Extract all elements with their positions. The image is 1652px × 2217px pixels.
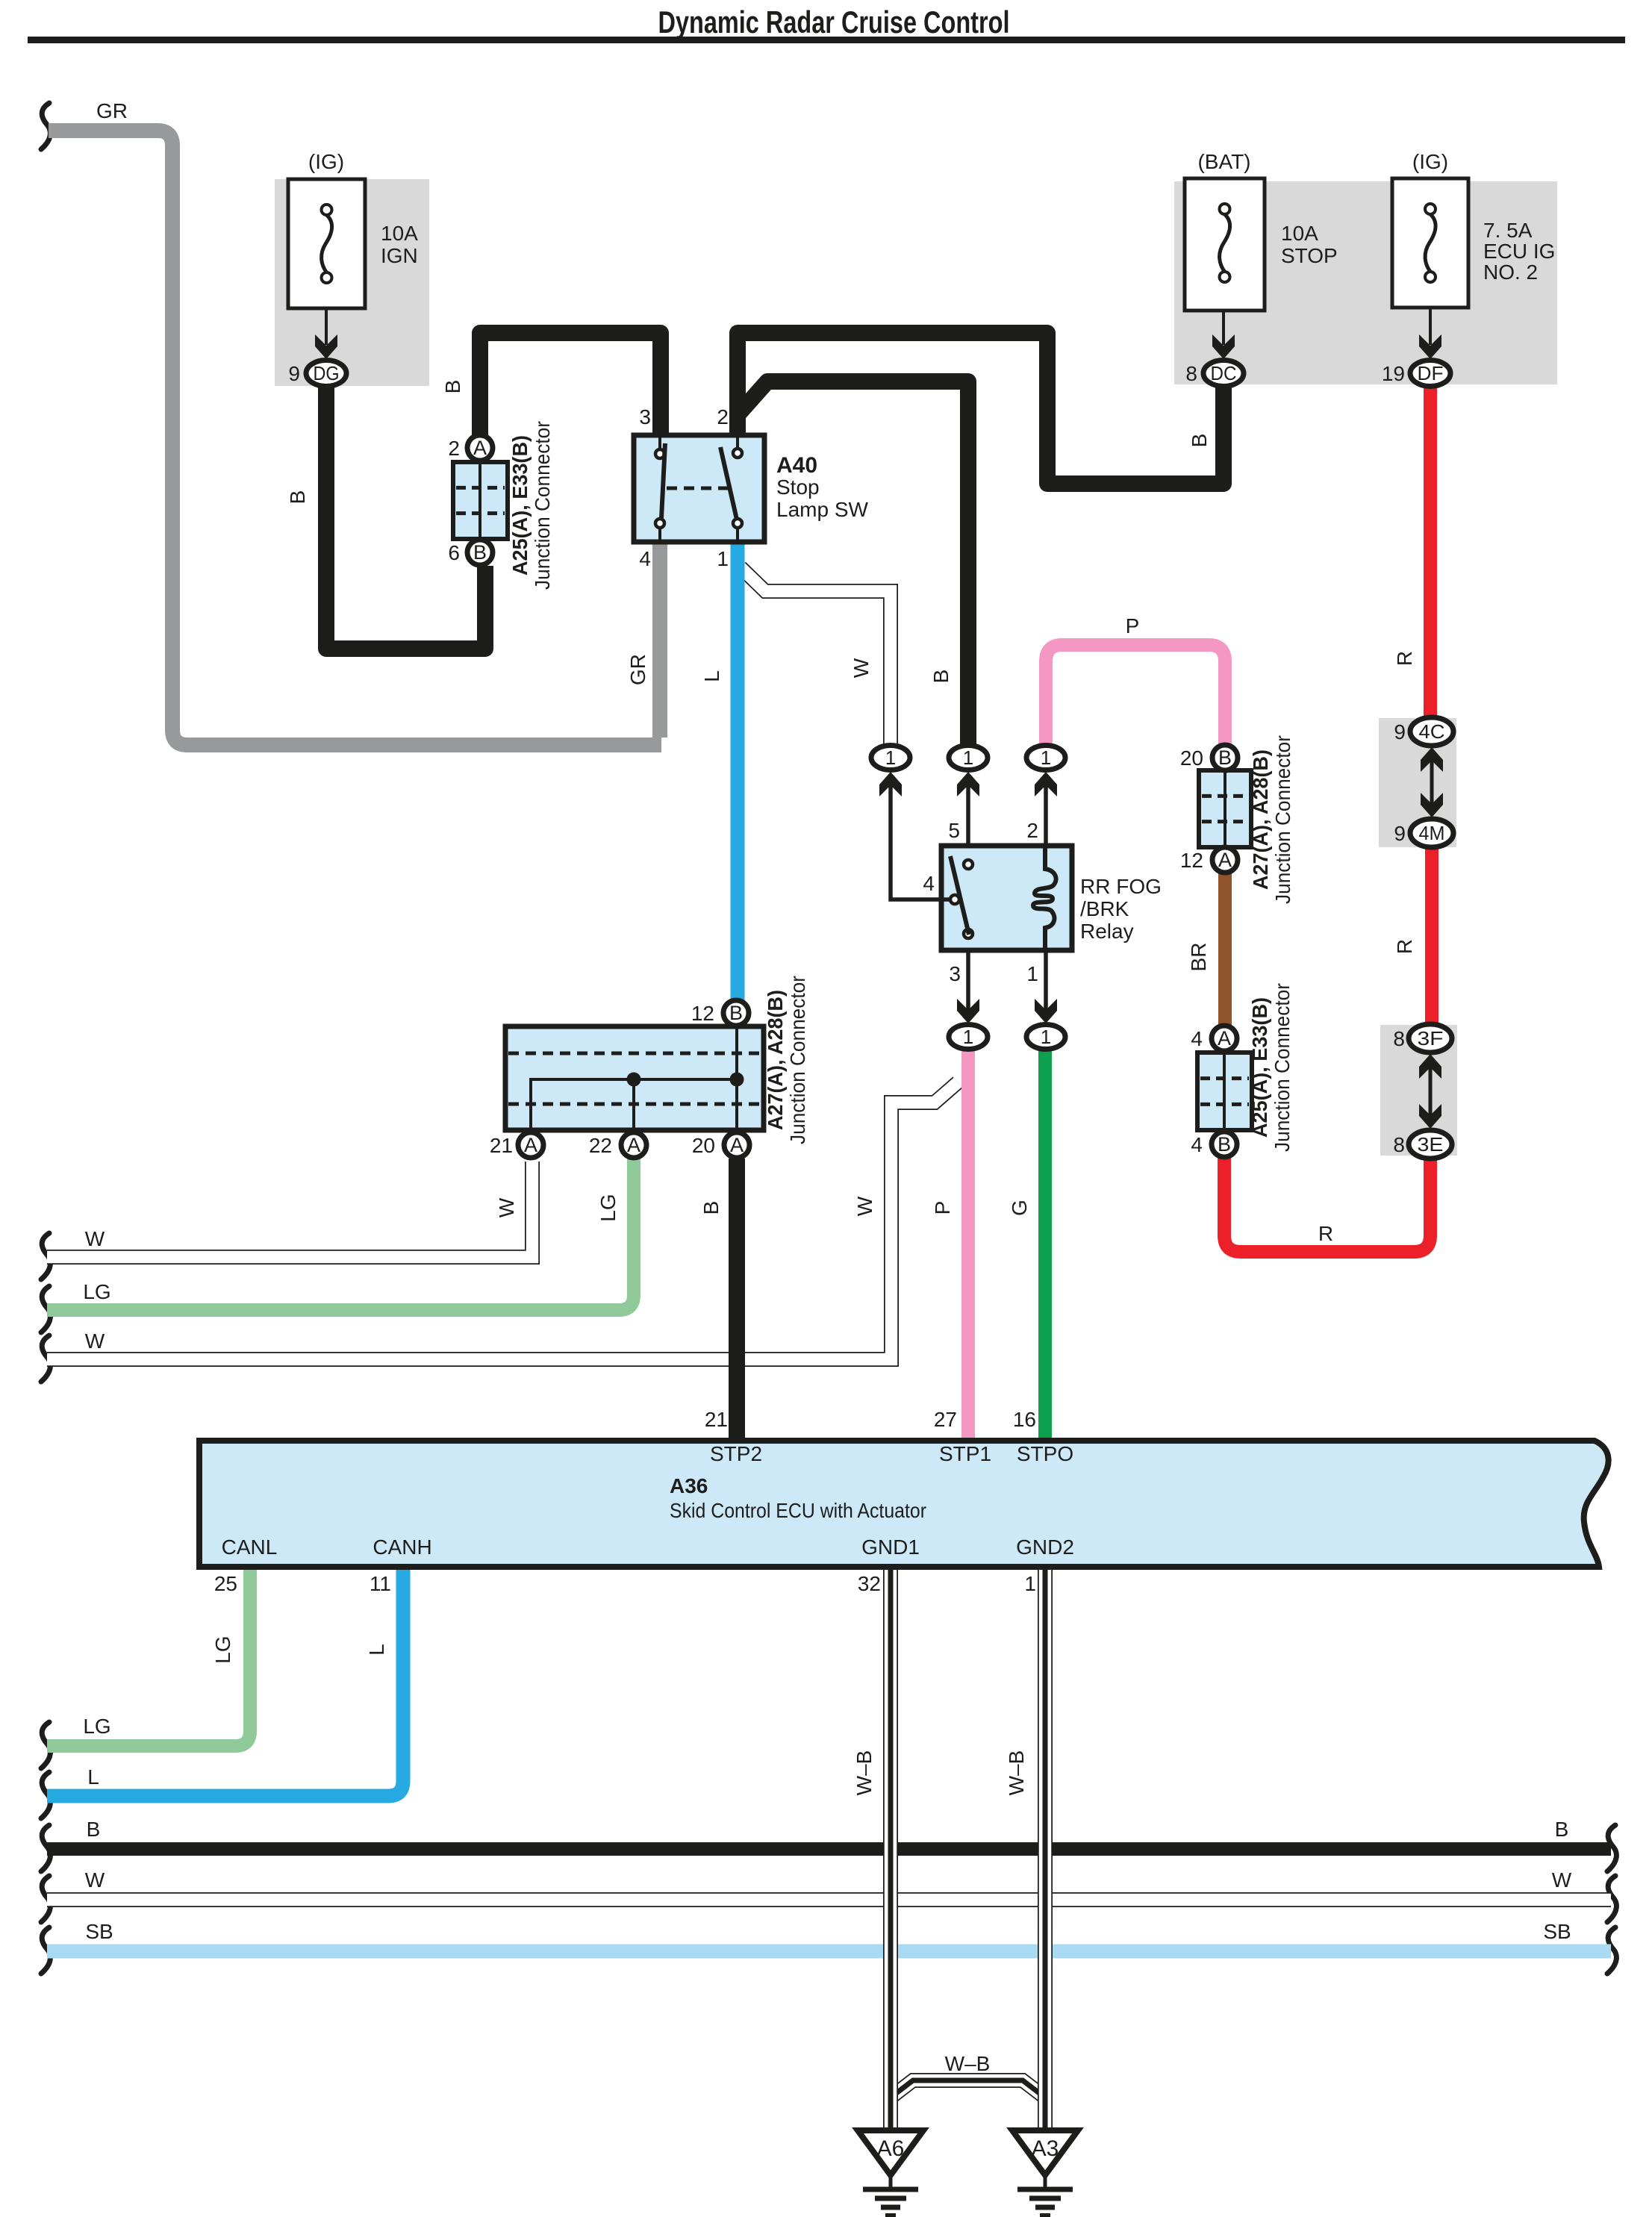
svg-text:Junction Connector: Junction Connector bbox=[1271, 983, 1294, 1152]
svg-text:L: L bbox=[87, 1765, 99, 1789]
svg-text:IGN: IGN bbox=[381, 244, 418, 267]
svg-text:CANL: CANL bbox=[222, 1535, 278, 1559]
svg-text:GR: GR bbox=[626, 654, 649, 685]
svg-text:Lamp SW: Lamp SW bbox=[776, 498, 868, 521]
svg-text:1: 1 bbox=[717, 547, 729, 570]
svg-text:5: 5 bbox=[948, 819, 960, 842]
svg-text:NO. 2: NO. 2 bbox=[1483, 261, 1538, 284]
svg-text:W: W bbox=[85, 1868, 105, 1892]
svg-text:A: A bbox=[1218, 849, 1232, 871]
svg-text:3F: 3F bbox=[1418, 1027, 1444, 1050]
svg-text:8: 8 bbox=[1185, 362, 1197, 385]
svg-text:B: B bbox=[441, 380, 464, 394]
svg-text:3: 3 bbox=[949, 962, 961, 985]
svg-text:1: 1 bbox=[1024, 1572, 1036, 1595]
svg-text:10A: 10A bbox=[381, 222, 418, 245]
svg-text:LG: LG bbox=[596, 1194, 620, 1221]
svg-text:16: 16 bbox=[1013, 1408, 1036, 1431]
svg-text:2: 2 bbox=[448, 437, 460, 460]
svg-text:A6: A6 bbox=[877, 2136, 905, 2161]
svg-text:20: 20 bbox=[692, 1134, 715, 1157]
svg-text:W: W bbox=[853, 1196, 876, 1216]
svg-text:Relay: Relay bbox=[1080, 920, 1134, 943]
svg-text:B: B bbox=[286, 490, 309, 505]
svg-text:SB: SB bbox=[1543, 1920, 1571, 1943]
svg-text:LG: LG bbox=[211, 1636, 234, 1663]
svg-text:GND1: GND1 bbox=[861, 1535, 920, 1559]
svg-text:STPO: STPO bbox=[1017, 1442, 1073, 1465]
svg-text:B: B bbox=[929, 670, 953, 684]
svg-text:L: L bbox=[365, 1644, 388, 1656]
svg-text:A36: A36 bbox=[670, 1474, 708, 1497]
svg-text:P: P bbox=[931, 1201, 954, 1215]
svg-text:12: 12 bbox=[691, 1002, 714, 1025]
svg-text:GND2: GND2 bbox=[1016, 1535, 1074, 1559]
svg-text:4: 4 bbox=[1191, 1027, 1203, 1050]
svg-text:2: 2 bbox=[717, 405, 729, 428]
svg-text:4: 4 bbox=[639, 547, 651, 570]
svg-text:W: W bbox=[1552, 1868, 1572, 1892]
svg-text:4C: 4C bbox=[1419, 720, 1445, 743]
svg-text:22: 22 bbox=[589, 1134, 612, 1157]
svg-text:7. 5A: 7. 5A bbox=[1483, 219, 1533, 242]
svg-text:A: A bbox=[1218, 1027, 1231, 1050]
svg-text:Stop: Stop bbox=[776, 475, 820, 499]
svg-text:GR: GR bbox=[96, 99, 128, 122]
svg-text:W: W bbox=[85, 1329, 105, 1353]
svg-text:Junction Connector: Junction Connector bbox=[531, 421, 554, 590]
svg-text:25: 25 bbox=[214, 1572, 237, 1595]
svg-text:DG: DG bbox=[314, 362, 340, 384]
svg-text:R: R bbox=[1318, 1222, 1333, 1245]
svg-text:SB: SB bbox=[85, 1920, 113, 1943]
svg-text:STOP: STOP bbox=[1281, 244, 1338, 267]
svg-text:(IG): (IG) bbox=[308, 150, 344, 173]
svg-text:B: B bbox=[1218, 746, 1232, 769]
svg-text:R: R bbox=[1393, 939, 1416, 954]
svg-text:B: B bbox=[473, 541, 487, 564]
svg-text:A: A bbox=[730, 1134, 744, 1156]
svg-text:STP2: STP2 bbox=[710, 1442, 762, 1465]
svg-text:27: 27 bbox=[934, 1408, 957, 1431]
svg-text:W–B: W–B bbox=[853, 1750, 876, 1796]
svg-text:B: B bbox=[87, 1818, 101, 1841]
svg-text:9: 9 bbox=[1394, 822, 1406, 845]
svg-text:W–B: W–B bbox=[945, 2052, 991, 2075]
svg-text:Junction Connector: Junction Connector bbox=[1271, 735, 1294, 904]
svg-text:A25(A), E33(B): A25(A), E33(B) bbox=[508, 435, 532, 576]
svg-text:A: A bbox=[627, 1134, 640, 1156]
svg-text:L: L bbox=[700, 670, 723, 682]
svg-text:A27(A), A28(B): A27(A), A28(B) bbox=[764, 990, 787, 1130]
svg-text:4: 4 bbox=[1191, 1133, 1203, 1156]
svg-text:A: A bbox=[524, 1134, 537, 1156]
svg-text:1: 1 bbox=[1041, 1026, 1051, 1048]
svg-text:DF: DF bbox=[1418, 362, 1444, 384]
svg-text:1: 1 bbox=[1041, 746, 1051, 769]
svg-text:DC: DC bbox=[1211, 362, 1237, 384]
svg-text:A27(A), A28(B): A27(A), A28(B) bbox=[1249, 749, 1272, 890]
svg-text:32: 32 bbox=[858, 1572, 881, 1595]
svg-text:A40: A40 bbox=[776, 453, 817, 478]
svg-text:19: 19 bbox=[1382, 362, 1405, 385]
svg-text:3E: 3E bbox=[1418, 1133, 1444, 1156]
svg-text:Dynamic Radar Cruise Control: Dynamic Radar Cruise Control bbox=[658, 4, 1010, 40]
svg-text:(IG): (IG) bbox=[1412, 150, 1448, 173]
svg-text:W: W bbox=[85, 1227, 105, 1250]
svg-text:CANH: CANH bbox=[373, 1535, 431, 1559]
svg-text:1: 1 bbox=[1026, 962, 1038, 985]
svg-text:A25(A), E33(B): A25(A), E33(B) bbox=[1248, 997, 1271, 1138]
svg-text:RR FOG: RR FOG bbox=[1080, 875, 1162, 898]
svg-text:B: B bbox=[729, 1002, 743, 1024]
svg-text:ECU IG: ECU IG bbox=[1483, 240, 1555, 263]
svg-text:STP1: STP1 bbox=[939, 1442, 991, 1465]
svg-text:2: 2 bbox=[1026, 819, 1038, 842]
svg-text:W: W bbox=[850, 658, 873, 678]
svg-text:1: 1 bbox=[963, 1026, 973, 1048]
svg-text:8: 8 bbox=[1393, 1027, 1405, 1050]
svg-text:Skid Control ECU with Actuator: Skid Control ECU with Actuator bbox=[670, 1499, 926, 1522]
svg-text:LG: LG bbox=[83, 1715, 110, 1738]
svg-text:G: G bbox=[1008, 1200, 1031, 1216]
svg-text:1: 1 bbox=[963, 746, 973, 769]
svg-text:6: 6 bbox=[448, 541, 460, 564]
svg-text:1: 1 bbox=[885, 746, 896, 769]
svg-text:B: B bbox=[1188, 434, 1211, 448]
svg-text:3: 3 bbox=[639, 405, 651, 428]
svg-text:P: P bbox=[1126, 614, 1140, 637]
svg-text:21: 21 bbox=[490, 1134, 513, 1157]
svg-text:B: B bbox=[1555, 1818, 1569, 1841]
svg-text:/BRK: /BRK bbox=[1080, 897, 1129, 920]
svg-text:W–B: W–B bbox=[1005, 1750, 1028, 1796]
svg-text:R: R bbox=[1393, 651, 1416, 666]
svg-text:BR: BR bbox=[1187, 943, 1210, 972]
svg-text:LG: LG bbox=[83, 1280, 110, 1303]
svg-text:Junction Connector: Junction Connector bbox=[786, 976, 809, 1144]
svg-text:A3: A3 bbox=[1032, 2136, 1059, 2161]
svg-text:9: 9 bbox=[1394, 720, 1406, 743]
svg-text:B: B bbox=[699, 1201, 723, 1215]
svg-text:4M: 4M bbox=[1419, 822, 1445, 844]
svg-text:B: B bbox=[1218, 1133, 1231, 1156]
svg-text:4: 4 bbox=[923, 872, 935, 895]
svg-text:A: A bbox=[473, 437, 487, 459]
svg-text:9: 9 bbox=[288, 362, 300, 385]
svg-text:21: 21 bbox=[705, 1408, 728, 1431]
svg-text:20: 20 bbox=[1180, 746, 1203, 770]
svg-text:12: 12 bbox=[1180, 849, 1203, 872]
svg-text:8: 8 bbox=[1393, 1133, 1405, 1156]
svg-text:W: W bbox=[495, 1197, 518, 1217]
svg-text:(BAT): (BAT) bbox=[1197, 150, 1250, 173]
svg-text:11: 11 bbox=[370, 1572, 391, 1595]
svg-text:10A: 10A bbox=[1281, 222, 1318, 245]
